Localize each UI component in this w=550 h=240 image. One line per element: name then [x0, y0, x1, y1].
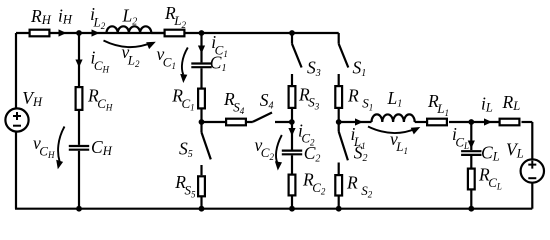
- resistor RL1: [427, 119, 447, 126]
- wire C2 to RC2: [291, 155, 293, 173]
- arrow iC2: [288, 128, 295, 136]
- capacitor C1: [191, 64, 211, 68]
- wire mid rail left: [202, 121, 226, 123]
- node bottom CL: [468, 206, 474, 212]
- curved arrow vCH: [58, 127, 64, 162]
- wire RL1 to node CL: [449, 121, 499, 123]
- curved arrow vL2: [104, 41, 152, 48]
- switch S3: [292, 33, 302, 85]
- branch CH: wire from top: [78, 33, 80, 86]
- branch C2: wire down: [291, 122, 293, 150]
- switch S1: [339, 33, 349, 85]
- inductor L1: [372, 114, 415, 122]
- wire CL to RCL: [470, 156, 472, 168]
- voltage source VH: [5, 108, 28, 131]
- arrow iL: [484, 118, 492, 125]
- capacitor CL: [461, 151, 481, 155]
- wire L1 to RL1: [415, 121, 426, 123]
- arrow iH: [59, 29, 67, 36]
- resistor RCH: [76, 87, 83, 110]
- wire RC2 to bottom: [291, 197, 293, 209]
- node mid L rail: [336, 119, 342, 125]
- resistor RS4: [226, 119, 246, 126]
- wire RCH to CH: [78, 111, 80, 145]
- capacitor CH: [69, 146, 89, 150]
- arrow iL2: [92, 29, 100, 36]
- curved arrow vL1: [368, 127, 416, 134]
- curved arrow vC1: [182, 48, 188, 75]
- wire right rail upper: [531, 122, 533, 159]
- resistor RS1: [335, 86, 342, 108]
- arrow iCH: [75, 60, 82, 68]
- switch S4: [247, 113, 292, 123]
- wire RC1 to mid node: [200, 110, 202, 123]
- voltage source VL: [521, 159, 544, 182]
- switch S5: [202, 122, 211, 175]
- arrow iC1: [198, 46, 205, 54]
- resistor RS5: [198, 176, 205, 196]
- node bottom C2: [289, 206, 295, 212]
- wire RS3 to mid node: [291, 108, 293, 122]
- node mid C2: [289, 119, 295, 125]
- switch S2: [339, 122, 348, 175]
- resistor RCL: [468, 169, 475, 190]
- node junction top C2: [289, 30, 295, 36]
- arrow iL1: [355, 118, 363, 125]
- node mid CL: [468, 119, 474, 125]
- node bottom RS2: [336, 206, 342, 212]
- node junction top C1: [199, 30, 205, 36]
- node junction top CH: [76, 30, 82, 36]
- resistor RH: [30, 30, 50, 37]
- wire top rail: [16, 32, 339, 34]
- wire RS5 to bottom: [200, 197, 202, 209]
- node bottom CH: [76, 206, 82, 212]
- resistor RS3: [289, 86, 296, 108]
- wire left rail upper: [15, 33, 17, 109]
- node bottom RS5: [199, 206, 205, 212]
- wire RL to right rail: [522, 121, 533, 123]
- wire mid rail right: node to L1: [339, 121, 372, 123]
- curved arrow vC2: [276, 135, 282, 163]
- branch CL: wire down: [470, 122, 472, 150]
- capacitor C2: [282, 151, 302, 155]
- resistor RL2: [165, 30, 185, 37]
- resistor RS2: [335, 175, 342, 195]
- branch C1: wire from top: [200, 33, 202, 62]
- resistor RL: [500, 119, 520, 126]
- inductor L2: [107, 26, 152, 33]
- wire bottom rail: [15, 208, 532, 210]
- arrow iCL: [468, 141, 475, 149]
- wire L2 to RL2: [151, 32, 163, 34]
- wire RCL to bottom: [470, 191, 472, 209]
- node mid C1: [199, 119, 205, 125]
- resistor RC2: [289, 175, 296, 196]
- wire RS2 to bottom: [338, 196, 340, 209]
- wire right rail lower: [531, 183, 533, 209]
- wire left rail lower: [15, 132, 17, 209]
- wire RS1 to mid node: [338, 108, 340, 122]
- wire CH to bottom: [78, 151, 80, 209]
- resistor RC1: [198, 89, 205, 109]
- wire C1 to RC1: [200, 68, 202, 87]
